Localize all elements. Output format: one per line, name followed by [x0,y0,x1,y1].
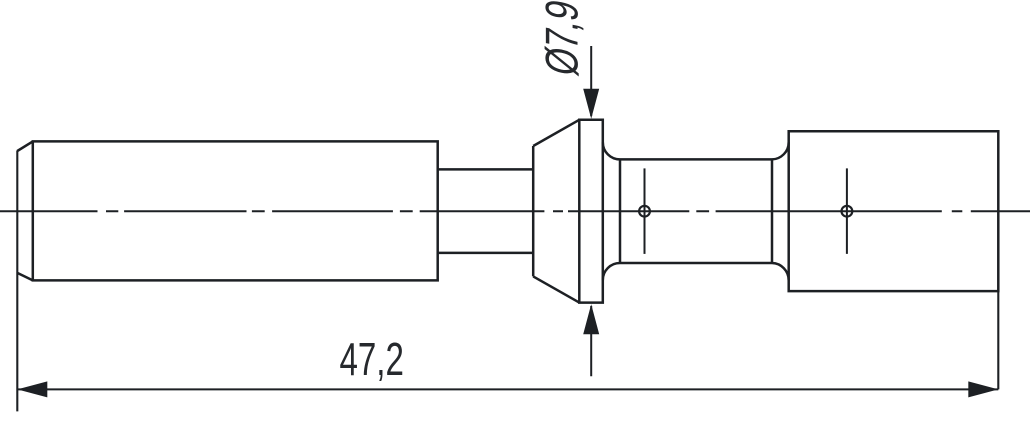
centerline (dash-dot chain) [0,210,1030,212]
left body chamfer top [17,141,33,151]
left body outline [33,141,438,280]
fillet small cylinder to right body bottom [772,263,789,280]
dimension line diameter upper [590,46,592,116]
dimension line diameter lower [590,306,592,376]
cone slant top [533,120,579,146]
left body chamfer bottom [17,273,33,281]
svg-text:47,2: 47,2 [339,335,403,385]
fillet rim to small cylinder top [603,142,620,159]
fillet small cylinder to right body top [772,142,789,159]
small cylinder top [620,158,772,161]
arrowhead 47,2 left [17,381,47,397]
tangent edge line right [771,159,774,263]
flange rim outline [579,120,603,303]
tangent edge line left [619,159,622,263]
fillet rim to small cylinder bottom [603,263,620,280]
center mark circle 1 [639,206,650,217]
cone base edge [532,146,535,276]
svg-text:Ø7,9: Ø7,9 [536,0,588,79]
dimension line 47,2 [17,388,998,390]
center mark vertical 2 [846,168,848,254]
cone slant bottom [533,276,579,302]
arrowhead 47,2 right [968,381,998,397]
center mark circle 2 [842,206,853,217]
narrow cylinder bottom [438,252,534,255]
center mark vertical 1 [644,168,646,254]
right body outline [789,131,999,291]
narrow cylinder top [438,168,534,171]
left extension line / chamfer end face [16,151,18,412]
small cylinder bottom [620,262,772,265]
right extension line [997,291,999,389]
arrowhead diameter top [583,89,599,119]
arrowhead diameter bottom [583,304,599,334]
